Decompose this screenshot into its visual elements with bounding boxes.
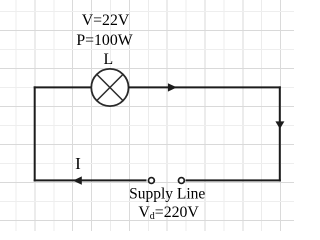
wire: bottom-right horizontal segment: [186, 179, 281, 181]
svg-text:V=22V: V=22V: [82, 12, 130, 29]
wire: top-right horizontal segment: [128, 86, 281, 88]
wire: bottom-left horizontal segment: [34, 179, 147, 181]
label L (lamp designator): [103, 51, 113, 68]
label V=22V: [82, 12, 130, 29]
lamp L (circle with X): [91, 69, 128, 106]
svg-text:Supply Line: Supply Line: [129, 185, 205, 202]
svg-text:L: L: [103, 51, 113, 68]
switch terminal (left): [148, 178, 154, 184]
svg-text:Vd=220V: Vd=220V: [138, 204, 199, 222]
label I (current): [75, 154, 81, 173]
label P=100W: [76, 32, 132, 49]
current arrow (leftward) on bottom wire: [73, 176, 82, 184]
svg-text:I: I: [75, 154, 81, 173]
wire: left vertical segment: [34, 86, 36, 181]
current arrow (downward) on right wire: [275, 121, 284, 128]
label Supply Line: [129, 185, 205, 202]
wire: right vertical segment: [279, 86, 281, 181]
current arrow (rightward) on top wire: [168, 83, 177, 91]
svg-text:P=100W: P=100W: [76, 32, 132, 49]
label Vd=220V: [138, 204, 199, 222]
switch terminal (right): [178, 178, 184, 184]
wire: top-left horizontal segment: [34, 86, 92, 88]
